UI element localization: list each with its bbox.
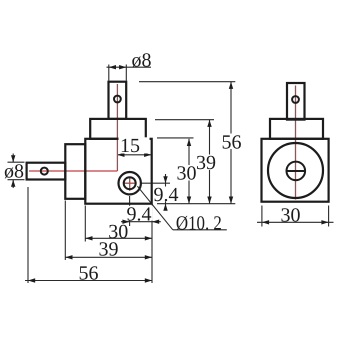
svg-text:56: 56: [79, 263, 99, 285]
svg-text:ø8: ø8: [132, 50, 152, 72]
svg-text:39: 39: [196, 152, 216, 174]
svg-text:30: 30: [281, 205, 301, 227]
svg-text:ø8: ø8: [4, 161, 24, 183]
svg-text:56: 56: [222, 131, 242, 153]
svg-text:9.4: 9.4: [127, 204, 152, 226]
svg-text:39: 39: [99, 239, 119, 261]
svg-text:30: 30: [177, 163, 197, 185]
svg-text:9.4: 9.4: [154, 184, 179, 206]
svg-text:Ø10. 2: Ø10. 2: [176, 212, 222, 234]
svg-text:15: 15: [120, 135, 140, 157]
